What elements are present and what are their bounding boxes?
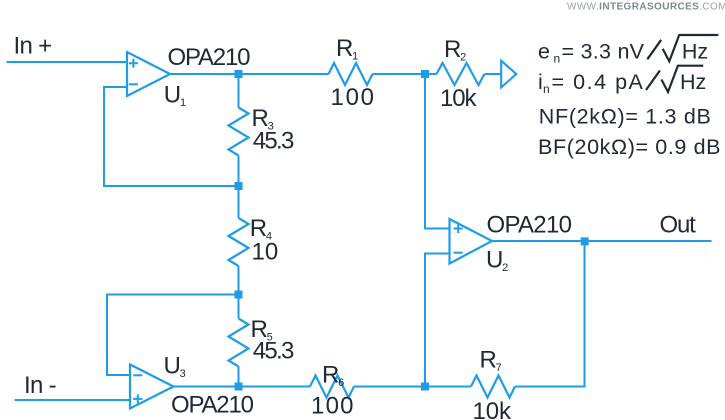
wire U2 minus input feedback	[425, 254, 450, 387]
svg-text:R7: R7	[480, 347, 502, 375]
svg-text:45.3: 45.3	[253, 128, 294, 155]
svg-text:BF(20kΩ)= 0.9 dB: BF(20kΩ)= 0.9 dB	[538, 135, 721, 159]
svg-text:= 3.3 nV: = 3.3 nV	[562, 39, 645, 63]
svg-text:OPA210: OPA210	[487, 212, 572, 239]
svg-text:e: e	[538, 39, 550, 63]
resistor R5	[229, 319, 249, 367]
svg-text:10: 10	[252, 239, 279, 266]
svg-text:OPA210: OPA210	[168, 44, 251, 71]
resistor R4	[229, 218, 249, 266]
svg-text:45.3: 45.3	[253, 338, 294, 365]
slash line 2	[646, 71, 660, 91]
resistor R2	[437, 63, 485, 85]
wire R5 bottom segment	[238, 367, 240, 387]
svg-text:NF(2kΩ)= 1.3 dB: NF(2kΩ)= 1.3 dB	[539, 105, 711, 129]
wire R7 to Out node	[515, 241, 585, 387]
wire R3-R4 segment	[238, 156, 240, 219]
resistor R7	[471, 376, 515, 398]
svg-text:= 0.4 pA: = 0.4 pA	[552, 70, 644, 94]
svg-text:n: n	[554, 51, 561, 65]
junction node R3 top	[235, 70, 243, 78]
svg-text:U3: U3	[164, 353, 186, 381]
junction node R3 bottom	[235, 182, 243, 190]
svg-text:U1: U1	[164, 82, 186, 110]
junction node R5 bottom	[235, 383, 243, 391]
wire R2 to terminal	[485, 73, 502, 75]
wire R4-R5 segment	[238, 266, 240, 319]
junction node R7 left	[421, 383, 429, 391]
terminal arrow after R2	[501, 61, 516, 88]
wire U3 output to R6	[174, 386, 311, 388]
svg-text:100: 100	[311, 393, 354, 420]
svg-text:Hz: Hz	[682, 39, 708, 63]
resistor R1	[329, 63, 373, 85]
slash line 1	[647, 40, 661, 60]
op-amp U3	[130, 365, 174, 409]
svg-text:OPA210: OPA210	[171, 392, 254, 419]
wire U1 feedback	[104, 87, 239, 186]
wire U3 feedback	[107, 295, 239, 376]
svg-text:Out: Out	[660, 211, 697, 238]
radical sign line 2	[661, 66, 703, 92]
resistor R3	[229, 108, 249, 156]
svg-text:WWW.INTEGRASOURCES.COM: WWW.INTEGRASOURCES.COM	[567, 2, 725, 13]
wire In- input	[15, 399, 131, 401]
svg-text:100: 100	[331, 84, 375, 111]
wire node to U2 plus input	[425, 74, 450, 229]
radical sign line 1	[663, 35, 719, 61]
junction node Out	[581, 237, 589, 245]
op-amp U1	[127, 52, 170, 96]
wire In+ input	[7, 61, 128, 63]
junction node R1-R2	[421, 70, 429, 78]
svg-text:10k: 10k	[473, 398, 513, 420]
svg-text:In -: In -	[24, 372, 56, 399]
wire U2 output Out	[492, 240, 712, 242]
wire R1 to R2	[373, 73, 437, 75]
svg-text:n: n	[543, 82, 550, 96]
svg-text:R1: R1	[336, 35, 358, 63]
svg-text:U2: U2	[486, 247, 508, 275]
svg-text:R6: R6	[322, 362, 344, 390]
wire R3 top segment	[238, 74, 240, 108]
svg-text:R2: R2	[444, 36, 466, 64]
wire R6 to R7	[354, 386, 471, 388]
svg-text:10k: 10k	[440, 85, 478, 112]
op-amp U2	[450, 219, 493, 264]
svg-text:Hz: Hz	[680, 70, 706, 94]
resistor R6	[310, 376, 354, 398]
svg-text:In +: In +	[14, 33, 52, 60]
wire U1 output to R1	[170, 73, 329, 75]
junction node R5 top	[235, 291, 243, 299]
